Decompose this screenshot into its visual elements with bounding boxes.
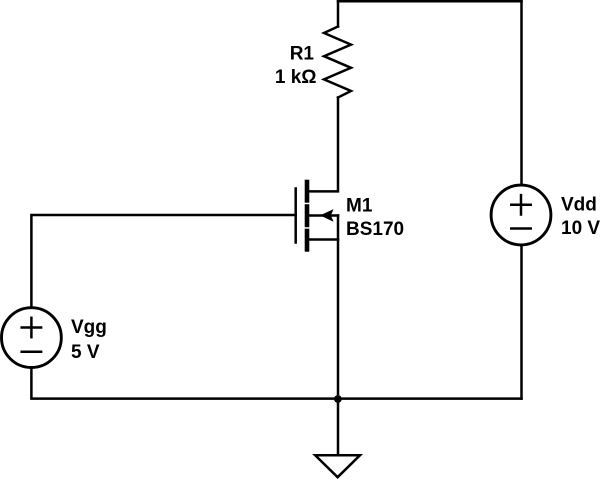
wire Vdd bottom lead	[520, 245, 523, 399]
source lead	[309, 238, 338, 241]
svg-text:M1: M1	[346, 196, 373, 217]
svg-text:R1: R1	[290, 44, 315, 65]
voltage source Vgg	[2, 308, 62, 368]
svg-text:Vgg: Vgg	[71, 317, 107, 338]
svg-text:BS170: BS170	[346, 219, 404, 240]
wire top horizontal from R1 top to Vdd top	[338, 0, 522, 3]
wire source down to ground rail	[337, 216, 340, 399]
svg-text:Vdd: Vdd	[561, 195, 597, 216]
transistor M1 (NMOS BS170)	[296, 182, 338, 249]
wire Vdd top lead	[520, 1, 523, 185]
svg-text:1 kΩ: 1 kΩ	[275, 67, 317, 88]
ground	[315, 455, 360, 477]
wire R1 top lead	[337, 1, 340, 26]
channel bar source segment	[305, 231, 310, 249]
wire Vgg bottom to ground rail	[31, 368, 338, 399]
svg-text:10 V: 10 V	[561, 218, 600, 239]
wire ground stem	[337, 399, 340, 454]
resistor R1	[324, 27, 351, 98]
body lead with arrow	[309, 214, 338, 217]
svg-text:5 V: 5 V	[71, 342, 100, 363]
node junction dot	[334, 395, 342, 403]
gate bar	[294, 189, 297, 243]
channel bar body segment	[305, 207, 310, 225]
voltage source Vdd	[491, 185, 551, 245]
wire R1 bottom to drain	[309, 98, 338, 192]
wire ground rail right to Vdd	[338, 397, 522, 400]
channel bar drain segment	[305, 182, 310, 200]
wire gate lead to Vgg	[31, 215, 295, 308]
